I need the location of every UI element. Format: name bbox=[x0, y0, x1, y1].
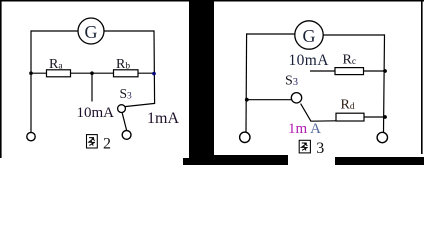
wire: fig3 switch feed bbox=[247, 99, 292, 101]
wire: fig2 resistor rail bbox=[31, 72, 154, 74]
wire: fig2 switch to terminal bbox=[122, 112, 127, 130]
caption 图 3 bbox=[299, 140, 324, 157]
resistor Rb bbox=[114, 70, 139, 77]
svg-text:10mA: 10mA bbox=[77, 105, 115, 121]
wire: fig2 top rail right segment bbox=[104, 30, 155, 32]
wire: fig3 top rail left segment bbox=[247, 33, 295, 35]
svg-text:2: 2 bbox=[103, 136, 111, 153]
junction node: fig2 left rail bbox=[29, 71, 33, 75]
svg-text:10mA: 10mA bbox=[289, 52, 330, 69]
switch S3 (fig2) bbox=[118, 103, 155, 112]
switch S3 (fig3) bbox=[291, 93, 336, 122]
terminal: fig2 right binding post bbox=[122, 131, 131, 140]
wire: fig2 10mA tap stub bbox=[91, 73, 93, 101]
resistor Ra bbox=[47, 70, 71, 77]
wire: fig3 left vertical branch bbox=[245, 33, 248, 132]
wire: fig3 right vertical branch bbox=[384, 34, 385, 132]
resistor Rd bbox=[336, 113, 364, 121]
terminal: fig2 left binding post bbox=[27, 132, 35, 140]
svg-text:1m A: 1m A bbox=[288, 121, 321, 137]
svg-text:3: 3 bbox=[316, 140, 324, 157]
wire: fig2 right vertical branch bbox=[153, 30, 156, 104]
junction node: fig3 right rail upper bbox=[383, 69, 387, 73]
wire: fig2 top rail left segment bbox=[31, 30, 79, 32]
wire: fig3 Rd right lead bbox=[364, 116, 385, 118]
terminal: fig3 right binding post bbox=[377, 132, 387, 142]
galvanometer G (fig3) bbox=[295, 21, 323, 49]
svg-text:G: G bbox=[85, 22, 98, 42]
svg-text:G: G bbox=[303, 26, 316, 46]
caption 图 2 bbox=[87, 135, 112, 153]
junction node: fig3 right rail lower bbox=[383, 115, 387, 119]
wire: fig3 top rail right segment bbox=[323, 34, 385, 36]
wire: fig3 Rc left lead (10mA contact) bbox=[310, 70, 335, 72]
junction node: fig2 right rail bbox=[152, 72, 156, 76]
wire: fig2 left vertical branch bbox=[30, 30, 32, 132]
junction node: fig3 left branch bbox=[245, 98, 249, 102]
junction node: fig2 mid rail bbox=[90, 71, 94, 75]
resistor Rc bbox=[335, 68, 364, 75]
terminal: fig3 left binding post bbox=[240, 132, 250, 142]
svg-text:1mA: 1mA bbox=[147, 110, 179, 127]
galvanometer G (fig2) bbox=[78, 18, 104, 44]
wire: fig3 Rc right lead bbox=[364, 70, 386, 72]
